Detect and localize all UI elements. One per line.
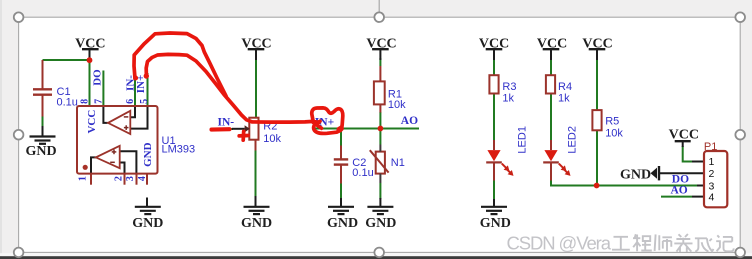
svg-text:VCC: VCC [582,36,612,51]
svg-text:GND: GND [327,216,358,231]
svg-text:VCC: VCC [537,36,567,51]
svg-text:IN-: IN- [218,117,235,129]
svg-text:CSDN @Vera: CSDN @Vera [507,233,612,254]
svg-text:R3: R3 [502,81,516,93]
svg-text:2: 2 [709,168,715,180]
svg-text:VCC: VCC [75,36,105,51]
svg-text:LED1: LED1 [516,126,528,154]
svg-text:10k: 10k [605,128,623,140]
svg-text:0.1u: 0.1u [57,96,78,108]
svg-text:5: 5 [139,99,150,104]
svg-text:6: 6 [125,99,136,104]
svg-text:7: 7 [93,99,104,104]
svg-text:P1: P1 [704,141,717,153]
svg-text:2: 2 [114,176,125,181]
svg-text:3: 3 [125,176,136,181]
svg-text:VCC: VCC [366,36,396,51]
svg-text:DO: DO [92,69,104,86]
svg-text:1: 1 [77,176,88,181]
svg-text:GND: GND [132,216,163,231]
svg-text:GND: GND [142,142,154,167]
svg-text:VCC: VCC [86,110,98,134]
svg-text:1k: 1k [558,92,570,104]
svg-text:1: 1 [709,156,715,168]
svg-text:N1: N1 [391,157,405,169]
svg-text:GND: GND [480,216,511,231]
svg-text:4: 4 [137,176,148,181]
svg-text:GND: GND [620,167,651,182]
svg-text:GND: GND [365,216,396,231]
svg-text:LED2: LED2 [566,126,578,154]
svg-text:LM393: LM393 [162,144,196,156]
svg-text:10k: 10k [388,99,406,111]
svg-text:0.1u: 0.1u [352,167,373,179]
svg-text:4: 4 [709,192,715,204]
svg-text:AO: AO [671,185,688,197]
svg-text:8: 8 [79,99,90,104]
svg-text:GND: GND [241,216,272,231]
svg-text:AO: AO [401,115,418,127]
svg-text:R5: R5 [605,116,619,128]
svg-text:VCC: VCC [241,36,271,51]
svg-text:VCC: VCC [479,36,509,51]
svg-text:3: 3 [709,180,715,192]
svg-text:VCC: VCC [669,128,699,143]
svg-text:10k: 10k [263,133,281,145]
svg-text:R4: R4 [558,81,572,93]
svg-text:GND: GND [25,144,56,159]
svg-text:1k: 1k [502,92,514,104]
